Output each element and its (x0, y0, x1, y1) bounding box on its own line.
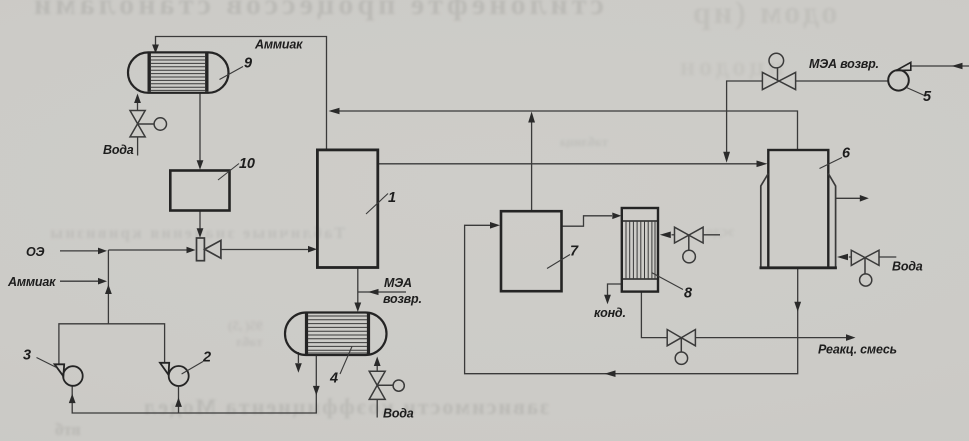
bleed-through small 95 (228, 318, 263, 350)
wire valve to blower 5 (796, 80, 889, 82)
svg-text:МЭА: МЭА (384, 276, 412, 290)
wire ammonia feed left (60, 280, 99, 282)
leader line to label 1 (366, 194, 388, 215)
bleed-through right faint second row (676, 52, 783, 82)
svg-text:4: 4 (329, 371, 338, 387)
wire ejector to column 1 (221, 249, 309, 251)
wire water into HX8 from valve (672, 234, 675, 236)
wire riser corner to ejector (108, 249, 187, 251)
pump 3 (55, 364, 83, 386)
svg-text:6: 6 (842, 146, 851, 162)
bleed-through mid row (48, 225, 345, 243)
wire vessel 6 right outlet (836, 197, 860, 199)
svg-text:Аммиак: Аммиак (254, 38, 303, 52)
bleed-through text top strip (30, 0, 604, 22)
svg-text:Вода: Вода (892, 260, 923, 274)
heat exchanger 8 shell (622, 208, 658, 292)
svg-text:Реакц. смесь: Реакц. смесь (818, 343, 897, 357)
bleed-through small center (560, 134, 608, 150)
apparatus 10 box (170, 171, 229, 211)
wire stub below HX9 valve (137, 137, 139, 156)
valve with actuator at vessel 6 water inlet (851, 250, 879, 286)
column 1 (317, 150, 377, 268)
wire upper recycle line to column 1 (331, 111, 798, 150)
leader line to label 10 (218, 164, 239, 181)
valve with actuator at HX8 water inlet (675, 227, 704, 263)
bleed-through bottom corner (55, 420, 81, 440)
arrow into apparatus 7 left inlet (490, 222, 500, 229)
wire pump suction header (72, 355, 316, 413)
wire water into HX4 (376, 366, 378, 371)
svg-text:конд.: конд. (594, 306, 626, 320)
wire column 1 to vessel 6 (379, 163, 766, 165)
svg-text:Вода: Вода (383, 407, 414, 421)
heat exchanger 9 tubes (151, 57, 205, 91)
arrow left on bottom return line (605, 370, 616, 377)
wire stub below HX4 valve (376, 399, 378, 417)
valve with actuator at HX4 water inlet (369, 371, 404, 399)
svg-text:7: 7 (570, 244, 579, 260)
leader line to label 3 (37, 358, 57, 368)
svg-text:9: 9 (244, 56, 252, 72)
wire stub right of vessel 6 valve (879, 256, 896, 258)
arrow down on HX4 outlet drop (313, 386, 320, 396)
svg-text:ОЭ: ОЭ (26, 245, 45, 259)
wire product line reaction mixture (695, 337, 847, 339)
svg-text:2: 2 (202, 350, 211, 366)
leader line to label 4 (340, 347, 352, 375)
wire ammonia top line into HX9 (156, 37, 327, 150)
leader line to label 2 (182, 362, 203, 375)
svg-text:МЭА возвр.: МЭА возвр. (809, 57, 879, 71)
wire column 1 bottom to HX4 (357, 268, 359, 304)
bleed-through right big (690, 0, 837, 31)
valve with actuator on MEA return top line (762, 53, 795, 89)
svg-text:10: 10 (239, 156, 255, 172)
wire OE feed (60, 250, 99, 252)
heat exchanger 4 tubes (308, 316, 367, 353)
wire condensate drain (608, 284, 622, 295)
blower 5 (888, 62, 911, 90)
wire pump discharge header (59, 324, 165, 365)
wire HX4 left drain (297, 352, 299, 363)
valve with actuator at HX9 water inlet (130, 111, 167, 137)
wire riser from apparatus 7 (531, 114, 533, 211)
valve with actuator on reaction mixture line (667, 330, 695, 365)
wire vessel 6 bottom return loop to apparatus 7 (465, 225, 798, 373)
leader line to label 8 (652, 273, 684, 290)
wire blower 5 suction from right edge (911, 65, 969, 67)
svg-text:1: 1 (388, 190, 396, 206)
arrow down on vessel 6 bottom outlet (794, 302, 801, 312)
svg-text:8: 8 (684, 286, 693, 302)
wire HX8 bottom to product valve (641, 292, 667, 338)
vessel 6 jacket left (761, 174, 769, 268)
wire water into HX9 (137, 97, 139, 110)
vessel 6 jacket right (828, 174, 835, 268)
wire MEA return stub (358, 291, 406, 293)
arrow into pump 2 suction (175, 397, 182, 407)
wire valve line down into vessel feed line (727, 81, 763, 152)
heat exchanger 8 tube sheets (623, 221, 657, 279)
heat exchanger 4 tube sheets (307, 314, 369, 355)
heat exchanger 9 shell (128, 52, 229, 92)
svg-text:Вода: Вода (103, 143, 134, 157)
pump 2 (160, 363, 189, 386)
vessel 6 inner shell (768, 150, 828, 268)
wire water into vessel 6 from valve (849, 256, 852, 258)
wire pump 2 suction drop (178, 387, 180, 413)
heat exchanger 8 tubes (626, 221, 655, 279)
arrow into pump 3 suction (69, 394, 76, 404)
heat exchanger 4 shell (285, 313, 387, 356)
heat exchanger 9 tube sheets (149, 53, 207, 91)
svg-text:5: 5 (923, 89, 932, 105)
vessel 6 bottom plate (760, 266, 837, 269)
svg-text:3: 3 (23, 348, 31, 364)
svg-text:Аммиак: Аммиак (7, 275, 56, 289)
leader line to label 5 (907, 88, 925, 96)
svg-text:возвр.: возвр. (383, 292, 422, 306)
apparatus 7 box (501, 211, 562, 291)
wire box 10 to ejector (199, 211, 201, 234)
wire mixing riser from pumps (107, 250, 109, 324)
ejector (197, 238, 221, 261)
leader line to label 9 (220, 67, 244, 80)
wire stub right of HX8 valve (703, 234, 720, 236)
bleed-through bottom big (142, 394, 549, 420)
wire HX9 to box 10 (199, 94, 201, 167)
wire apparatus 7 to HX8 (562, 216, 613, 226)
leader line to label 6 (820, 158, 843, 169)
bleed-through left of vessel (706, 224, 734, 241)
leader line to label 7 (547, 255, 570, 269)
